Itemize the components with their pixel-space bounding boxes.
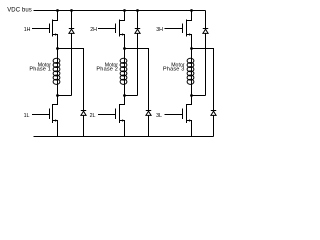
junction dot node A1 (56, 47, 59, 50)
label Motor Phase 1 (29, 63, 51, 73)
junction dot rail D2H cathode (136, 9, 139, 12)
diode D1L (81, 111, 86, 137)
diode D3H (203, 11, 208, 96)
wire ground/return bottom rail (34, 136, 214, 138)
wire node B1 to D1H anode (58, 95, 72, 97)
transistor Q1L (32, 96, 58, 137)
junction dot node B2 (123, 94, 126, 97)
junction dot rail Q2H drain (123, 9, 126, 12)
transistor Q1H (32, 11, 58, 49)
svg-text:2L: 2L (90, 113, 96, 119)
junction dot node A2 (123, 47, 126, 50)
transistor Q3H (165, 11, 192, 49)
diode D3L (211, 111, 216, 137)
diode D2H (135, 11, 140, 96)
wire node A2 to D2L cathode (125, 49, 149, 111)
junction dot rail Q3H drain (190, 9, 193, 12)
svg-text:1H: 1H (24, 27, 31, 33)
svg-text:3H: 3H (156, 27, 163, 33)
svg-text:Phase 1: Phase 1 (29, 67, 51, 73)
junction dot node B1 (56, 94, 59, 97)
diode D2L (146, 111, 151, 137)
junction dot node A3 (190, 47, 193, 50)
wire node B3 to D3H anode (192, 95, 206, 97)
svg-text:3L: 3L (156, 113, 162, 119)
svg-text:Phase 3: Phase 3 (163, 67, 185, 73)
svg-text:VDC bus: VDC bus (7, 8, 32, 14)
wire node A3 to D3L cathode (192, 49, 214, 111)
inductor motor phase 3 winding (187, 49, 194, 96)
wire node A1 to D1L cathode (58, 49, 84, 111)
svg-text:Phase 2: Phase 2 (96, 67, 118, 73)
junction dot rail Q1H drain (56, 9, 59, 12)
svg-text:2H: 2H (90, 27, 97, 33)
transistor Q3L (165, 96, 192, 137)
junction dot node B3 (190, 94, 193, 97)
transistor Q2L (98, 96, 125, 137)
svg-text:1L: 1L (24, 113, 30, 119)
wire node B2 to D2H anode (125, 95, 138, 97)
junction dot rail D1H cathode (70, 9, 73, 12)
inductor motor phase 2 winding (120, 49, 127, 96)
label Motor Phase 2 (96, 63, 118, 73)
label Motor Phase 3 (163, 63, 185, 73)
diode D1H (69, 11, 74, 96)
wire VDC bus top rail (34, 10, 206, 12)
transistor Q2H (98, 11, 125, 49)
inductor motor phase 1 winding (53, 49, 60, 96)
